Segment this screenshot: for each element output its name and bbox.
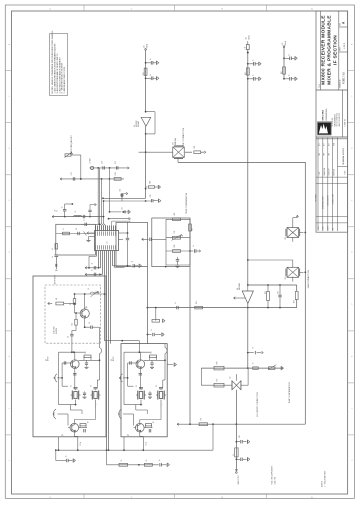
svg-text:R72: R72	[217, 379, 219, 382]
svg-text:C ECN 117 UPD: C ECN 117 UPD	[332, 194, 334, 204]
svg-text:QTY: QTY	[324, 143, 326, 146]
svg-text:C44 IF FREQ ADJUST: C44 IF FREQ ADJUST	[70, 134, 73, 154]
svg-text:C5 1n: C5 1n	[80, 442, 82, 446]
svg-text:REF: REF	[324, 153, 326, 156]
svg-text:XF2: XF2	[285, 237, 287, 240]
svg-text:1n: 1n	[289, 54, 291, 56]
svg-text:Q2: Q2	[62, 434, 64, 436]
svg-text:R128 + MB COMPONENTS: R128 + MB COMPONENTS	[271, 466, 273, 485]
svg-text:1n: 1n	[57, 210, 59, 212]
svg-text:R10: R10	[143, 72, 145, 75]
svg-text:U1: U1	[107, 241, 109, 243]
svg-text:1 OF 2: 1 OF 2	[344, 42, 346, 49]
svg-text:MIXER & PROGRAMMABLE: MIXER & PROGRAMMABLE	[326, 15, 332, 85]
svg-text:2k: 2k	[146, 459, 148, 461]
svg-text:QTY: QTY	[329, 143, 331, 146]
svg-text:SPECTRA: SPECTRA	[322, 110, 325, 121]
svg-text:1 REF: 1 REF	[344, 170, 346, 174]
svg-text:L1: L1	[63, 228, 65, 230]
svg-text:U4: U4	[237, 288, 239, 290]
svg-text:MC33502: MC33502	[136, 120, 138, 127]
svg-text:1n: 1n	[52, 256, 54, 258]
svg-text:R8: R8	[56, 298, 58, 300]
svg-text:MX800 RECEIVER MODULE: MX800 RECEIVER MODULE	[320, 15, 326, 85]
svg-text:R51: R51	[196, 301, 198, 304]
svg-text:R62: R62	[293, 300, 295, 303]
svg-text:L2 45M: L2 45M	[90, 158, 92, 164]
svg-text:1n: 1n	[253, 363, 255, 365]
svg-text:L5: L5	[88, 288, 90, 290]
svg-text:R71: R71	[201, 418, 203, 421]
svg-text:1n: 1n	[150, 74, 152, 76]
svg-text:MULT CONNECTION: MULT CONNECTION	[183, 128, 185, 147]
svg-text:R10: R10	[245, 72, 247, 75]
svg-text:45.455M: 45.455M	[56, 327, 58, 334]
svg-text:2-9-97: 2-9-97	[328, 226, 330, 230]
svg-text:REVISIONS: REVISIONS	[315, 194, 317, 202]
svg-text:R63: R63	[217, 361, 219, 364]
svg-text:IF SECTION: IF SECTION	[332, 35, 338, 65]
svg-text:XF3: XF3	[285, 277, 287, 280]
svg-text:1n: 1n	[62, 206, 64, 208]
svg-text:Q3: Q3	[86, 306, 88, 308]
svg-text:C5 1n: C5 1n	[146, 442, 148, 446]
svg-text:2k: 2k	[121, 459, 123, 461]
svg-text:C14: C14	[102, 161, 104, 164]
svg-text:5. REFER ASSY DWG C1059: 5. REFER ASSY DWG C1059	[63, 66, 66, 94]
svg-text:R61: R61	[265, 291, 267, 294]
svg-text:1k: 1k	[233, 454, 235, 456]
svg-text:TEMP COMPENSATION: TEMP COMPENSATION	[185, 192, 188, 214]
svg-text:ITEM: ITEM	[333, 143, 335, 146]
svg-text:SHEET: SHEET	[340, 46, 342, 51]
svg-text:1n: 1n	[92, 263, 94, 265]
svg-text:1-5-97: 1-5-97	[319, 171, 321, 175]
svg-text:1n: 1n	[252, 59, 254, 61]
svg-text:QTY: QTY	[319, 143, 321, 146]
svg-text:U5: U5	[230, 376, 232, 378]
svg-text:BF199: BF199	[113, 356, 115, 361]
svg-text:R41: R41	[174, 213, 176, 216]
svg-text:L3: L3	[75, 211, 77, 213]
svg-text:C81: C81	[239, 435, 241, 438]
svg-text:R29: R29	[150, 181, 152, 184]
svg-text:MC33502: MC33502	[239, 283, 241, 290]
svg-text:XF1: XF1	[173, 142, 175, 145]
svg-text:X1: X1	[136, 385, 138, 387]
svg-text:PO BOX 200: PO BOX 200	[332, 118, 334, 127]
svg-text:1n: 1n	[66, 455, 68, 457]
svg-text:455K IF OUT: 455K IF OUT	[238, 475, 240, 484]
svg-text:SIZE: SIZE	[340, 23, 342, 26]
svg-text:Q1: Q1	[46, 359, 48, 361]
svg-text:1n: 1n	[150, 58, 152, 60]
svg-text:C16: C16	[120, 189, 122, 192]
svg-text:1n: 1n	[175, 302, 177, 304]
svg-text:BF199: BF199	[48, 356, 50, 361]
svg-text:C61: C61	[278, 291, 280, 294]
svg-text:GENERAL NOTES: GENERAL NOTES	[342, 147, 345, 165]
svg-text:R10: R10	[281, 71, 283, 74]
svg-text:TEL 61 8 9248 2755: TEL 61 8 9248 2755	[337, 113, 339, 127]
svg-text:R43: R43	[174, 245, 176, 248]
svg-text:TH1: TH1	[174, 231, 176, 234]
svg-text:REF: REF	[329, 153, 331, 156]
svg-text:C15: C15	[115, 161, 117, 164]
svg-text:Q2: Q2	[128, 434, 130, 436]
svg-text:1n: 1n	[159, 459, 161, 461]
svg-text:TEMP COMPENSATION: TEMP COMPENSATION	[288, 382, 291, 404]
svg-text:C9: C9	[54, 209, 56, 211]
svg-text:1n: 1n	[132, 261, 134, 263]
svg-text:NOTES:: NOTES:	[322, 480, 324, 487]
svg-text:GAIN CONNECTION: GAIN CONNECTION	[307, 270, 310, 288]
svg-text:R31: R31	[194, 146, 196, 149]
svg-text:B ECN 102 UPD: B ECN 102 UPD	[328, 195, 330, 205]
svg-text:1-5-97: 1-5-97	[318, 226, 320, 230]
svg-text:10k: 10k	[72, 323, 74, 326]
svg-text:LOW + MB: LOW + MB	[274, 477, 276, 484]
svg-text:R3: R3	[85, 351, 87, 353]
svg-text:C29: C29	[150, 195, 152, 198]
svg-text:X1: X1	[70, 385, 72, 387]
svg-text:DC OFFSET CORRECTION: DC OFFSET CORRECTION	[257, 392, 259, 417]
svg-text:MB: MB	[332, 228, 334, 230]
svg-text:1n: 1n	[151, 329, 153, 331]
svg-text:R7: R7	[88, 421, 90, 423]
svg-text:1n: 1n	[252, 74, 254, 76]
svg-text:R3: R3	[151, 351, 153, 353]
svg-text:R24: R24	[115, 172, 117, 175]
svg-text:1F: 1F	[253, 347, 255, 349]
svg-text:1n: 1n	[92, 269, 94, 271]
svg-text:1n: 1n	[289, 74, 291, 76]
svg-text:ENGINEERING: ENGINEERING	[326, 108, 328, 121]
svg-text:4-6-97: 4-6-97	[323, 226, 325, 230]
svg-text:FDB17-02: FDB17-02	[342, 72, 346, 84]
svg-text:X1: X1	[90, 385, 92, 387]
svg-text:CHECK PK: CHECK PK	[329, 168, 331, 175]
svg-text:C4: C4	[68, 336, 70, 338]
svg-text:C21: C21	[71, 172, 73, 175]
svg-text:1 MAY 97: 1 MAY 97	[344, 119, 347, 126]
svg-text:D4: D4	[121, 207, 123, 209]
svg-text:1n: 1n	[193, 245, 195, 247]
svg-text:Q1: Q1	[111, 359, 113, 361]
svg-text:REF: REF	[319, 153, 321, 156]
svg-text:L10: L10	[245, 47, 247, 50]
svg-text:X1: X1	[156, 385, 158, 387]
svg-text:U3: U3	[134, 125, 136, 127]
svg-text:C3: C3	[76, 228, 78, 230]
svg-text:1n: 1n	[84, 219, 86, 221]
svg-text:L4: L4	[52, 248, 54, 250]
svg-text:R42: R42	[192, 228, 194, 231]
svg-text:C6: C6	[89, 322, 91, 324]
svg-text:R7: R7	[153, 421, 155, 423]
